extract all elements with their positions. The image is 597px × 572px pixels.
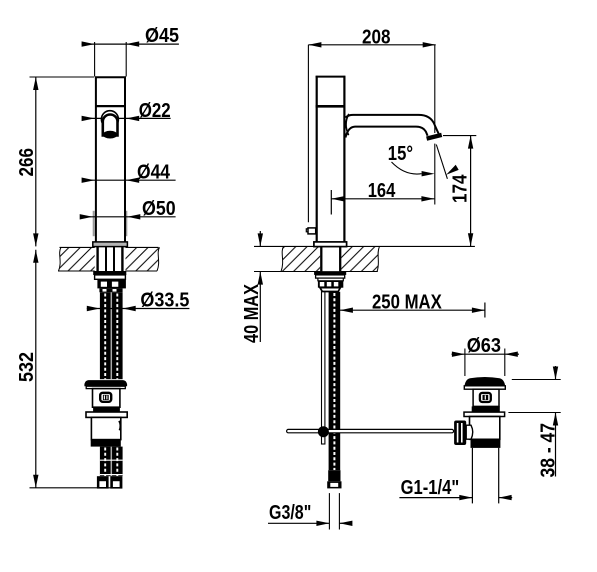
dimension Ø22 bbox=[82, 100, 171, 122]
mounting shank through counter (side view) bbox=[321, 247, 340, 272]
dimension 40 MAX bbox=[241, 231, 263, 343]
svg-text:Ø22: Ø22 bbox=[139, 100, 171, 122]
water stream line and outlet extension bbox=[435, 144, 448, 205]
twin supply hoses upper section (front view) bbox=[100, 292, 123, 379]
pop-up horizontal rod bbox=[287, 429, 454, 432]
svg-text:G3/8": G3/8" bbox=[269, 502, 311, 524]
countertop (front view, hatched section) bbox=[58, 247, 160, 272]
svg-text:Ø50: Ø50 bbox=[142, 198, 176, 220]
angle dimension 15 degrees bbox=[388, 143, 459, 176]
base flange (front view) bbox=[93, 242, 128, 247]
dimension G1-1/4" bbox=[399, 477, 512, 500]
spout (side view) bbox=[346, 114, 442, 139]
dimension Ø63 bbox=[452, 335, 520, 376]
faucet body (front view) bbox=[94, 76, 127, 242]
svg-text:G1-1/4": G1-1/4" bbox=[401, 477, 460, 499]
svg-text:Ø44: Ø44 bbox=[137, 161, 171, 183]
dimension Ø50 bbox=[80, 198, 176, 220]
svg-text:532: 532 bbox=[16, 352, 38, 382]
dimension 174 bbox=[443, 136, 476, 247]
mounting shank through counter (front view) bbox=[98, 247, 123, 272]
svg-text:208: 208 bbox=[362, 26, 391, 48]
pop-up drain assembly (side view) bbox=[454, 377, 505, 503]
dimension G3/8" bbox=[268, 493, 352, 529]
dimension 208 bbox=[308, 26, 435, 222]
svg-text:164: 164 bbox=[368, 180, 396, 202]
svg-text:Ø45: Ø45 bbox=[145, 25, 179, 47]
svg-text:174: 174 bbox=[450, 174, 472, 203]
pop-up control rod vertical (side view) bbox=[322, 292, 325, 444]
svg-text:15°: 15° bbox=[388, 143, 413, 165]
countertop (side view, hatched section) bbox=[254, 246, 475, 272]
rod ball joint bbox=[318, 426, 329, 437]
svg-text:266: 266 bbox=[16, 148, 38, 177]
dimension 38 - 47 bbox=[508, 366, 560, 478]
dimension 532 bbox=[16, 250, 122, 488]
dimension Ø45 bbox=[82, 25, 179, 77]
svg-text:Ø63: Ø63 bbox=[467, 335, 501, 357]
svg-text:Ø33.5: Ø33.5 bbox=[140, 289, 189, 311]
svg-text:38 - 47: 38 - 47 bbox=[538, 423, 560, 478]
svg-text:40 MAX: 40 MAX bbox=[241, 283, 263, 343]
locknut stack (front view) bbox=[93, 271, 126, 292]
rear outlet detail (side view) bbox=[306, 228, 315, 234]
dimension Ø33.5 bbox=[87, 289, 190, 311]
svg-text:250 MAX: 250 MAX bbox=[372, 291, 442, 313]
handle knob (front view) bbox=[101, 111, 118, 139]
faucet body (side view) bbox=[316, 76, 346, 243]
hose end fitting (side view) bbox=[327, 470, 341, 488]
pop-up waste assembly (front view) bbox=[84, 380, 127, 447]
dimension Ø44 bbox=[82, 161, 176, 183]
dimension 250 MAX bbox=[340, 291, 485, 317]
dimension 164 bbox=[331, 180, 434, 215]
locknut stack (side view) bbox=[314, 271, 346, 291]
twin hoses lower section with end fittings (front view) bbox=[97, 447, 123, 489]
supply hose (side view) bbox=[329, 292, 341, 470]
base flange (side view) bbox=[314, 242, 347, 247]
dimension 266 bbox=[16, 77, 94, 246]
